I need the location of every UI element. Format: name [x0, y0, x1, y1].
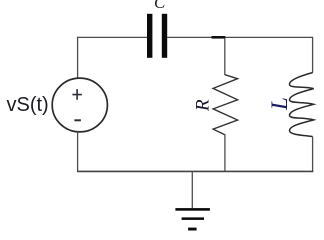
wire: right vertical top — [312, 37, 314, 73]
wire: source top lead — [77, 37, 79, 79]
wire: bold stub at resistor node — [212, 36, 226, 39]
ground bar 3 — [188, 228, 197, 231]
svg-text:vS(t): vS(t) — [7, 94, 49, 116]
voltage source vS circle — [52, 78, 107, 132]
inductor L coil — [290, 73, 314, 137]
svg-text:C: C — [154, 0, 166, 12]
wire: source bottom lead — [77, 132, 79, 172]
ground stem — [191, 171, 193, 208]
capacitor C left plate — [147, 14, 152, 58]
svg-text:L: L — [267, 97, 292, 111]
svg-text:R: R — [193, 99, 214, 112]
wire: right vertical bottom — [312, 137, 314, 172]
minus sign inside source — [74, 119, 81, 121]
wire: top-right horizontal from capacitor to right corner — [167, 36, 313, 38]
wire: top-left horizontal from source to capacitor — [77, 36, 147, 38]
capacitor C right plate — [162, 14, 167, 58]
wire: bottom horizontal — [77, 170, 313, 172]
ground bar 2 — [182, 217, 204, 220]
plus sign inside source — [72, 89, 81, 100]
ground bar 1 — [175, 208, 210, 211]
wire: resistor bottom lead — [224, 134, 226, 171]
resistor R zigzag — [213, 75, 238, 135]
wire: resistor top lead — [224, 38, 226, 75]
